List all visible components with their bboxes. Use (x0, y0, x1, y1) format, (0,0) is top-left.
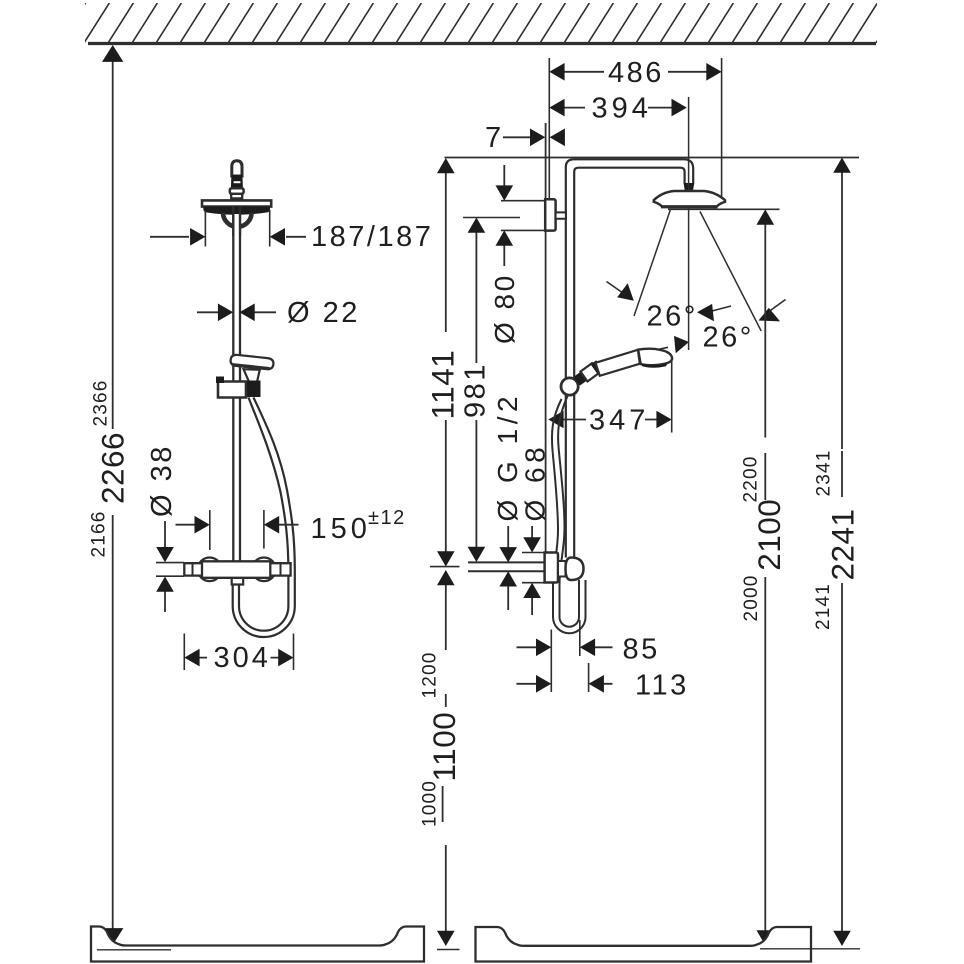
air knob (232, 161, 242, 176)
arrow down at tray (102, 928, 123, 945)
486/394 left extension line (548, 58, 550, 205)
svg-text:486: 486 (608, 57, 664, 89)
svg-text:7: 7 (485, 122, 504, 154)
head connector (684, 183, 695, 192)
hose U-turn (side view) (553, 580, 586, 633)
svg-text:981: 981 (460, 362, 492, 418)
dim 1000/1100/1200 line (445, 584, 447, 932)
dim 2141/2241/2341 line (841, 172, 843, 933)
hose from hand shower (side view) (552, 399, 562, 617)
riser pipe (side view) (566, 205, 574, 558)
svg-text:2141: 2141 (813, 583, 834, 630)
wall line (545, 123, 547, 553)
svg-text:1141: 1141 (425, 350, 461, 420)
supply pipe in wall (468, 562, 545, 571)
knob collar (230, 188, 244, 194)
hand shower (side view) pivot (561, 378, 578, 395)
svg-text:Ø 22: Ø 22 (287, 297, 360, 329)
wall bracket plate (545, 199, 555, 230)
connector ring (558, 561, 566, 577)
hose from hand shower down (left view) (254, 398, 295, 607)
ceiling line (88, 42, 876, 45)
svg-text:113: 113 (635, 670, 689, 702)
svg-text:2366: 2366 (91, 379, 112, 426)
svg-text:Ø 38: Ø 38 (146, 444, 178, 517)
head of hand shower (638, 349, 672, 366)
dim 486 (721, 58, 723, 197)
holder tab (black) (216, 377, 224, 384)
overhead shower head (side) (654, 191, 725, 207)
label 2166 (89, 510, 110, 557)
dim line at thermostat level (430, 566, 460, 568)
svg-text:2241: 2241 (825, 508, 861, 580)
dim diameter 38 (146, 444, 178, 517)
svg-text:187/187: 187/187 (311, 221, 433, 253)
arrow up at ceiling (102, 45, 123, 62)
svg-text:2000: 2000 (741, 574, 762, 621)
head plate slab (202, 200, 271, 206)
svg-text:26°: 26° (647, 301, 698, 333)
svg-text:2266: 2266 (95, 432, 131, 504)
svg-text:2341: 2341 (814, 449, 835, 496)
svg-text:304: 304 (214, 642, 271, 674)
svg-text:2166: 2166 (89, 510, 110, 557)
left shower tray (91, 927, 424, 962)
dim 981 line (463, 217, 520, 219)
svg-text:150: 150 (311, 513, 371, 545)
wall-height dimension line 2166/2266/2366 (112, 57, 114, 931)
ball joint arc under plate (223, 213, 252, 227)
svg-text:±12: ±12 (368, 507, 406, 529)
svg-text:Ø 68: Ø 68 (520, 443, 551, 522)
dim 85 (551, 620, 580, 692)
holder body (218, 382, 246, 398)
label 2266 (95, 432, 131, 504)
hand shower cone (244, 369, 260, 384)
top reference line (445, 157, 860, 159)
riser pipe (233, 205, 240, 562)
dim 347 (671, 361, 673, 433)
holder wedge black (574, 366, 596, 386)
label 2366 (91, 379, 112, 426)
svg-text:1200: 1200 (420, 651, 441, 698)
svg-text:Ø G 1/2: Ø G 1/2 (492, 392, 523, 522)
dim diameter 68 (520, 443, 551, 522)
dim 187/187 (205, 210, 269, 247)
line at head bottom to right (668, 208, 780, 210)
dim 394 (563, 107, 672, 109)
shower arm (566, 159, 693, 205)
holder clamp (black) (246, 381, 261, 398)
dim 113 (588, 663, 590, 692)
handle (596, 350, 641, 376)
head plate dark band (203, 207, 270, 215)
dim diameter 22 (197, 311, 276, 313)
svg-text:347: 347 (589, 405, 649, 437)
hose U-turn (left view) (233, 585, 295, 638)
svg-text:Ø 80: Ø 80 (489, 273, 520, 344)
dim 304 (184, 634, 293, 671)
bracket pin (556, 212, 566, 218)
svg-text:1100: 1100 (426, 712, 462, 782)
dim 2000/2100/2200 line (764, 224, 766, 932)
hand shower head (left view) (230, 354, 274, 369)
thermostat bar (198, 558, 222, 582)
right shower tray (476, 927, 812, 962)
escutcheon (545, 553, 558, 583)
hose nut (566, 558, 584, 581)
dim 150 +-12 (210, 510, 264, 550)
center/spray axis line (688, 97, 690, 350)
black band on handle (591, 360, 604, 374)
svg-text:85: 85 (623, 634, 660, 666)
svg-text:2100: 2100 (751, 499, 787, 571)
dim G 1/2 (492, 392, 523, 522)
pipe overlay through arc (235, 214, 239, 236)
svg-text:2200: 2200 (741, 455, 762, 502)
svg-text:394: 394 (592, 93, 652, 125)
dim diameter 80 (501, 201, 545, 231)
svg-text:1000: 1000 (420, 780, 441, 827)
svg-text:26°: 26° (703, 322, 754, 354)
dim 1141 line (445, 172, 447, 553)
spray cone lines (634, 210, 670, 316)
hose outlet under thermostat (232, 578, 244, 585)
